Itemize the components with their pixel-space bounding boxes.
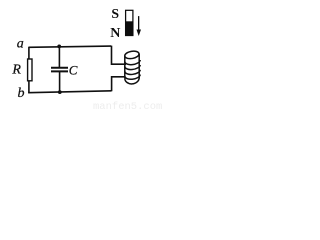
coil left edge [124,56,126,78]
svg-text:manfen5.com: manfen5.com [93,101,162,110]
coil winding arc 1 [125,60,140,65]
node: bottom junction dot [58,90,62,94]
coil winding arc 5 (bottom) [125,78,139,84]
magnet outer bar (S pole, white) [126,10,133,35]
coil right edge [138,54,140,79]
capacitor C bottom plate [51,70,68,72]
svg-text:S: S [111,6,119,21]
coil winding arc 3 [125,70,140,75]
wire: left vertical below resistor [28,81,30,93]
svg-text:N: N [110,26,120,41]
wire: coil bottom lead step down to bottom wire [112,77,125,92]
svg-text:C: C [69,63,78,78]
magnet N pole (black) [125,21,133,35]
wire: bottom horizontal [28,91,111,93]
svg-text:b: b [18,86,25,101]
wire: left vertical above resistor [28,47,30,59]
inductor coil (solenoid cylinder) [124,50,140,84]
coil winding arc 2 [125,65,140,70]
resistor R box [28,59,32,81]
coil top ellipse [124,50,139,60]
node: top junction dot [57,45,61,49]
capacitor C top plate [51,67,68,69]
svg-text:R: R [11,63,21,78]
wire: right step down to coil top lead [112,46,127,65]
arrow: magnet moving down [138,16,140,30]
coil winding arc 4 [125,75,140,80]
wire: capacitor branch lower [59,71,61,92]
wire: capacitor branch upper [58,46,60,68]
svg-text:a: a [17,37,24,52]
wire: top horizontal [29,46,112,47]
